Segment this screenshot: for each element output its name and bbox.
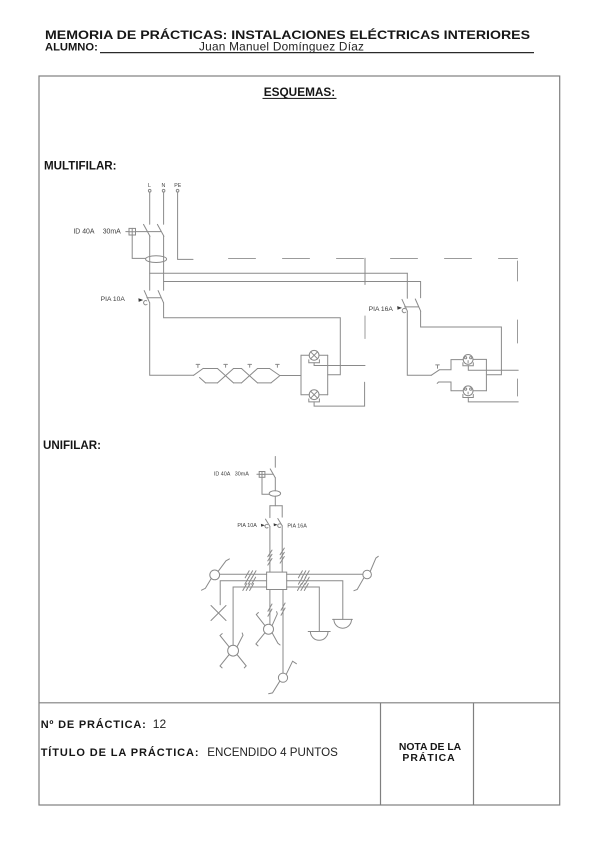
outer sheet frame xyxy=(39,76,560,805)
svg-text:ENCENDIDO 4 PUNTOS: ENCENDIDO 4 PUNTOS xyxy=(207,746,338,759)
PIA 16A trip arrow xyxy=(397,306,402,310)
switch A lever xyxy=(218,559,229,571)
upper rail segment 1 xyxy=(203,368,217,370)
outlet X1 circle xyxy=(463,355,473,365)
dashed enclosure right edge segment 2 xyxy=(517,320,519,343)
lamp box bottom edge xyxy=(301,394,328,396)
branch wire to cross X xyxy=(220,581,266,605)
lamp E1 tap wire xyxy=(314,363,365,366)
wire N drop xyxy=(163,192,165,224)
branch wire to lamp G xyxy=(287,587,320,632)
wire N below PIA16A xyxy=(421,311,502,375)
svg-text:12: 12 xyxy=(153,717,167,731)
underline of ALUMNO field xyxy=(100,52,534,54)
outlet X2 right wire xyxy=(473,390,487,392)
PIA 10A link bar xyxy=(147,297,161,299)
junction box xyxy=(267,572,287,589)
circuit 2 conductor hatches xyxy=(280,548,284,563)
PIA 16A pole L lever xyxy=(402,299,407,311)
switch S5 lever xyxy=(431,370,439,375)
outlet X2 contact right xyxy=(470,388,472,390)
underline of ESQUEMAS xyxy=(263,97,337,99)
MULTIFILAR-GROUP xyxy=(73,183,518,406)
switch E circle xyxy=(363,570,372,579)
svg-text:MULTIFILAR:: MULTIFILAR: xyxy=(44,160,117,173)
svg-text:UNIFILAR:: UNIFILAR: xyxy=(43,439,101,452)
dashed enclosure top edge xyxy=(229,258,518,260)
PIA 10A trip squiggle xyxy=(144,301,147,305)
wire L below differential xyxy=(149,236,151,290)
crossover switch C circle xyxy=(264,624,274,634)
branch B conductor hatches xyxy=(243,584,254,591)
lamp box top edge xyxy=(301,354,328,356)
crossover X1 actuator T xyxy=(224,364,228,367)
wire N below differential xyxy=(163,236,165,290)
crossover X1 diagonal a xyxy=(218,369,234,383)
wire L below PIA16A xyxy=(407,311,431,375)
conduit tick crossing buses xyxy=(364,258,366,284)
footer divider 2 xyxy=(473,703,475,805)
U-PIA10A trip arrow xyxy=(261,524,265,527)
svg-text:PIA 10A: PIA 10A xyxy=(237,523,257,529)
feeder entry wire xyxy=(274,457,276,468)
PIA 10A pole L lever xyxy=(144,291,149,303)
svg-text:ID 40A 30mA: ID 40A 30mA xyxy=(214,472,249,478)
outlet X2 left wire xyxy=(451,390,463,392)
lamp box right edge xyxy=(327,355,329,394)
toroid unifilar xyxy=(269,491,280,496)
PIA 16A feed L tap xyxy=(406,273,408,298)
circuit 1 wire to box xyxy=(269,526,271,572)
outlet X2 base xyxy=(463,394,473,397)
switch S4 actuator T xyxy=(276,364,280,367)
crossover X2 diagonal a xyxy=(242,369,258,383)
circuit 2 wire to box xyxy=(281,526,283,572)
dashed enclosure left edge segment xyxy=(364,316,366,339)
switch A circle xyxy=(210,570,220,580)
branch F conductor hatches xyxy=(298,577,309,584)
crossover B arm SE xyxy=(237,655,246,668)
branch A conductor hatches xyxy=(245,571,256,578)
crossing mark X xyxy=(211,606,226,621)
footer separator line xyxy=(39,702,560,704)
toroid of differential xyxy=(146,256,167,263)
svg-text:Juan Manuel Domínguez Díaz: Juan Manuel Domínguez Díaz xyxy=(199,39,364,53)
PIA 16A feed N tap xyxy=(420,282,422,298)
U-ID coil cross horizontal xyxy=(259,473,265,475)
outlet X1 earth pin xyxy=(467,361,469,363)
wire PE drop xyxy=(178,192,193,259)
U-PIA16A trip squiggle xyxy=(278,524,281,528)
lamp E1 holder xyxy=(309,360,320,363)
branch E conductor hatches xyxy=(298,571,309,578)
lamp E2 circle xyxy=(309,390,319,400)
switch E lever xyxy=(370,556,378,571)
switch S1 lever xyxy=(194,368,204,375)
svg-text:NOTA DE LA: NOTA DE LA xyxy=(399,742,462,753)
svg-text:PIA 16A: PIA 16A xyxy=(369,306,394,313)
U-PIA10A lever xyxy=(266,519,270,526)
differential pole L lever xyxy=(144,224,151,236)
lamp E2 tap wire xyxy=(314,382,365,406)
differential link bar xyxy=(136,231,161,233)
bus N horizontal xyxy=(164,281,421,283)
branch 2 drop xyxy=(281,506,283,517)
terminal L xyxy=(148,189,151,192)
crossover X2 diagonal b xyxy=(242,369,258,383)
outlet X1 tap wire xyxy=(468,366,518,370)
switch E tail xyxy=(354,578,364,591)
U-ID coil cross vertical xyxy=(261,472,263,478)
lamp G arc xyxy=(310,632,328,641)
lamp E1 cross xyxy=(311,352,318,359)
U-PIA16A trip arrow xyxy=(274,523,278,526)
outlet X1 contact right xyxy=(470,357,472,359)
crossover C arm NE xyxy=(272,612,277,626)
crossover C arm SE xyxy=(272,633,280,645)
upper rail segment 3 xyxy=(258,368,270,370)
wire coil to toroid xyxy=(132,235,145,258)
crossover B arm SW xyxy=(220,655,229,668)
lamp box left edge xyxy=(300,355,302,394)
switch S1 actuator T xyxy=(196,364,200,367)
wire N below PIA10A return xyxy=(164,303,341,375)
branch X conductor hatches xyxy=(245,577,256,584)
upper rail segment 2 xyxy=(234,368,242,370)
terminal N xyxy=(162,189,165,192)
U-ID link bar xyxy=(265,473,273,475)
outlet X1 right wire xyxy=(473,358,486,360)
outlet X2 left stub xyxy=(437,382,451,391)
outlet X2 contact left xyxy=(465,388,467,390)
svg-text:ALUMNO:: ALUMNO: xyxy=(45,42,98,54)
differential U-ID lever xyxy=(270,469,275,478)
PIA 16A pole N lever xyxy=(415,299,420,311)
differential test stub xyxy=(126,231,129,233)
wire below U-ID lever xyxy=(274,478,276,491)
box bottom wire to crossover C xyxy=(269,590,271,625)
crossover C arm SW xyxy=(256,633,265,646)
U-PIA16A lever xyxy=(278,519,282,526)
outlet X2 circle xyxy=(463,386,473,396)
UNIFILAR-GROUP xyxy=(202,457,379,694)
crossover X2 actuator T xyxy=(248,364,252,367)
dashed enclosure right edge segment 1 xyxy=(517,261,519,281)
branch G conductor hatches xyxy=(298,584,309,591)
switch D lever xyxy=(286,661,296,674)
lower rail segment 2 xyxy=(234,382,242,384)
bus L horizontal xyxy=(150,272,408,274)
switch A tail xyxy=(202,578,212,590)
footer divider 1 xyxy=(380,703,382,805)
switch D circle xyxy=(278,673,287,682)
U-ID coil to toroid wire xyxy=(262,477,269,494)
lower rail segment 1 xyxy=(206,382,218,384)
switch D conductor hatches xyxy=(281,603,285,615)
svg-text:ESQUEMAS:: ESQUEMAS: xyxy=(264,85,335,99)
lamp F arc xyxy=(334,619,352,628)
svg-text:PIA 16A: PIA 16A xyxy=(287,523,307,529)
PIA 16A trip squiggle xyxy=(402,309,405,313)
outlet X2 tap wire xyxy=(468,398,518,402)
wire toroid to split xyxy=(274,496,276,506)
outlet X1 contact left xyxy=(465,357,467,359)
lamp E1 circle xyxy=(309,350,319,360)
svg-text:L: L xyxy=(148,183,151,189)
branch wire to crossover B xyxy=(233,587,267,645)
svg-text:N: N xyxy=(162,183,166,189)
svg-text:30mA: 30mA xyxy=(103,228,121,235)
svg-text:PIA 10A: PIA 10A xyxy=(101,296,126,303)
wire S4 to lamp box xyxy=(280,375,301,377)
branch 1 drop xyxy=(269,506,271,518)
lamp E2 cross xyxy=(311,391,318,398)
lamp E2 holder xyxy=(309,399,320,402)
split bar xyxy=(270,505,282,507)
PIA 16A link bar xyxy=(405,306,419,308)
svg-text:ID 40A: ID 40A xyxy=(73,228,94,235)
svg-text:PRÁTICA: PRÁTICA xyxy=(402,751,455,764)
svg-text:PE: PE xyxy=(174,183,181,189)
crossover C arm NW xyxy=(256,613,265,626)
switch S1 lower takeoff xyxy=(200,378,206,383)
coil square cross horizontal xyxy=(129,231,136,233)
differential U-ID test stub xyxy=(257,473,259,475)
lower rail segment 3 xyxy=(258,382,272,384)
switch D tail xyxy=(269,681,280,693)
lamp G bar xyxy=(308,631,330,633)
outlet X2 earth pin xyxy=(467,392,469,394)
outlet X1 base xyxy=(463,363,473,366)
crossover X1 diagonal b xyxy=(218,369,234,383)
switch S4 lever xyxy=(270,369,280,376)
differential U-ID coil square xyxy=(259,472,265,478)
branch wire to lamp F xyxy=(287,581,343,620)
branch wire to switch E xyxy=(287,573,363,575)
switch S4 lower joint xyxy=(271,376,279,383)
wire L below PIA10A to switch chain xyxy=(150,303,194,376)
circuit 1 conductor hatches xyxy=(268,550,272,565)
PIA 10A pole N lever xyxy=(158,291,163,303)
crossover B arm NW xyxy=(220,634,229,647)
wire S5 to outlet xyxy=(439,360,463,370)
crossover switch B circle xyxy=(228,645,239,656)
lamp F bar xyxy=(333,618,353,620)
svg-text:Nº DE PRÁCTICA:: Nº DE PRÁCTICA: xyxy=(41,718,147,731)
crossover B arm NE xyxy=(237,633,243,647)
switch S5 actuator T xyxy=(436,365,440,368)
differential pole N lever xyxy=(157,224,164,236)
PIA 10A trip arrow xyxy=(138,298,143,302)
wire L drop xyxy=(149,192,151,224)
svg-text:TÍTULO DE LA PRÁCTICA:: TÍTULO DE LA PRÁCTICA: xyxy=(41,746,200,759)
terminal PE xyxy=(176,189,179,192)
crossover C conductor hatches xyxy=(268,604,272,616)
box bottom wire to switch D xyxy=(282,590,284,674)
coil square cross vertical xyxy=(131,228,133,235)
U-PIA10A trip squiggle xyxy=(265,524,268,528)
differential trip coil square xyxy=(129,228,136,235)
outlet right vertical link xyxy=(485,359,487,390)
dashed enclosure right edge segment 3 xyxy=(517,379,519,396)
branch wire to switch A xyxy=(220,573,267,575)
